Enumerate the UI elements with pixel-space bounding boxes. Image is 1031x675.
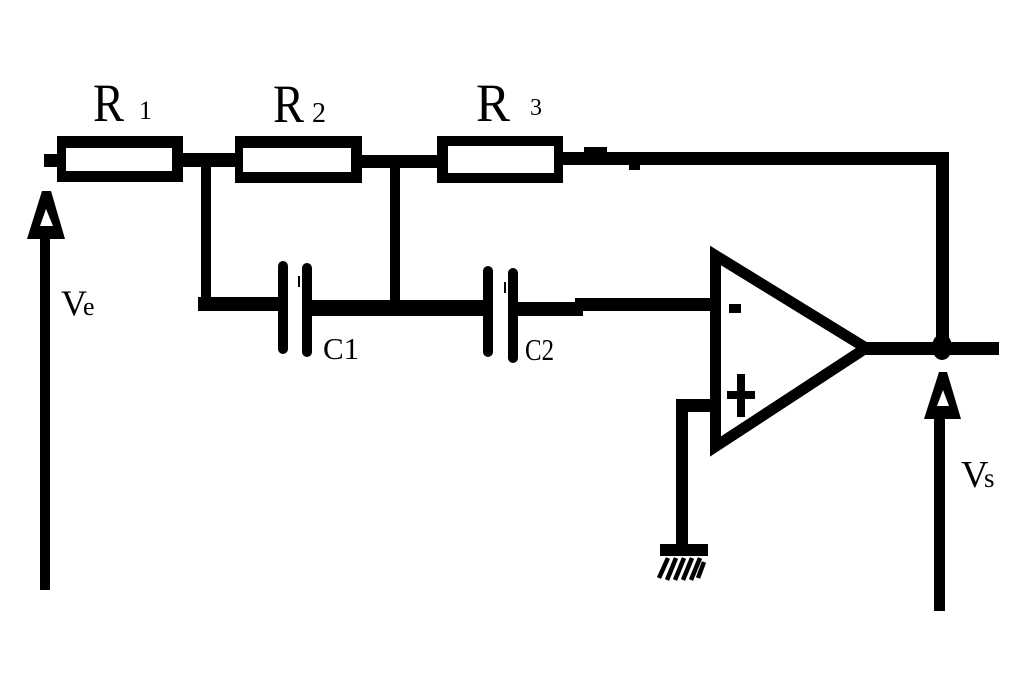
svg-text:1: 1 — [139, 96, 152, 125]
resistor R3 — [437, 136, 563, 183]
op-amp plus pin mark — [727, 374, 755, 417]
label R2 — [273, 74, 326, 134]
arrow Ve head — [27, 191, 65, 239]
wire elbow to C1 — [198, 297, 279, 311]
wire R2 to R3 — [362, 155, 437, 168]
wire R3 to top-right corner — [563, 147, 949, 170]
op-amp U1 — [716, 256, 867, 447]
resistor R1 — [57, 136, 183, 182]
wire input stub left of R1 — [44, 154, 57, 167]
resistor R2 — [235, 136, 362, 183]
wire R1 to R2 — [181, 153, 237, 167]
svg-text:C1: C1 — [323, 331, 359, 366]
svg-text:3: 3 — [530, 95, 542, 121]
svg-text:C2: C2 — [525, 332, 554, 367]
ground — [659, 544, 708, 580]
svg-text:R: R — [273, 74, 304, 134]
svg-text:s: s — [984, 463, 995, 493]
op-amp minus pin mark — [729, 304, 741, 313]
wire right vertical feedback — [936, 153, 949, 354]
label Ve — [61, 283, 95, 323]
capacitor C2 — [483, 266, 518, 363]
wire C1 to C2 — [312, 300, 484, 316]
label Vs — [961, 454, 995, 496]
node output junction dot — [932, 334, 952, 360]
svg-text:e: e — [83, 292, 95, 321]
label R1 — [93, 73, 152, 133]
label R3 — [476, 73, 542, 133]
arrow Vs head — [924, 372, 961, 419]
svg-text:R: R — [93, 73, 124, 133]
arrow Ve stem — [40, 228, 50, 590]
capacitor C1 — [278, 261, 312, 357]
svg-text:R: R — [476, 73, 510, 133]
wire vertical from R1-R2 junction down — [201, 160, 211, 311]
wire C2 to op-amp minus input — [517, 298, 712, 316]
wire op-amp output — [866, 342, 999, 355]
wire plus input elbow — [676, 399, 712, 545]
wire vertical from R2-R3 junction down — [390, 161, 400, 303]
svg-text:2: 2 — [312, 98, 326, 129]
arrow Vs stem — [934, 412, 945, 611]
